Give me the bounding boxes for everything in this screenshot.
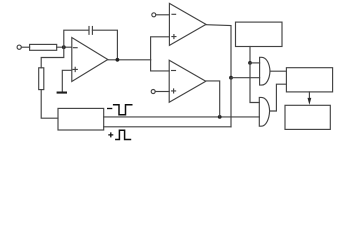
capacitor C1 right plate <box>91 27 93 35</box>
ground <box>57 92 67 94</box>
op-amp U3 <box>169 60 206 102</box>
terminal T2 <box>152 13 156 17</box>
U1 plus label <box>73 67 77 71</box>
op-amp U2 <box>169 3 206 45</box>
wire C1 to output node B <box>92 30 117 60</box>
wire T3 to U3 plus input <box>155 91 169 93</box>
box U7 display <box>285 105 330 129</box>
resistor R1 <box>30 44 57 50</box>
U2 plus label <box>172 35 176 39</box>
U2 minus label <box>172 13 176 15</box>
wire junction C up to U2 plus input <box>151 37 170 60</box>
wire node E down to gate G2 upper input <box>250 63 259 103</box>
capacitor C1 left plate <box>88 27 90 35</box>
box U5 control <box>58 108 104 130</box>
node E <box>248 61 252 65</box>
wire T2 to U2 minus input <box>156 14 170 16</box>
U3 minus label <box>172 70 176 72</box>
U1 minus label <box>74 47 78 49</box>
node A <box>62 45 66 49</box>
wire R1 to node A and U1 inverting input <box>57 46 72 48</box>
wire T1 to R1 <box>21 46 29 48</box>
wire2 U5 output to node D vertical <box>104 126 231 128</box>
wire G1 output to box U6 <box>270 70 286 72</box>
node F <box>218 115 222 119</box>
input terminal T1 <box>17 45 21 49</box>
wire junction C down to U3 minus input <box>151 60 170 71</box>
plus label wire2 <box>108 132 113 137</box>
box U6 counter <box>286 68 332 92</box>
wire1 U5 output to gate G2 lower input <box>104 116 260 118</box>
resistor R2 <box>39 68 44 90</box>
negative pulse symbol <box>113 105 133 115</box>
node D <box>229 76 233 80</box>
wire node E to gate G1 upper input <box>250 62 260 64</box>
positive pulse symbol <box>115 130 131 139</box>
node B <box>116 58 120 62</box>
wire U1 output to junction C <box>108 59 151 61</box>
minus label wire1 <box>107 108 112 110</box>
wire node D down to wire2 <box>230 78 232 127</box>
wire U1 plus input to ground <box>62 70 72 91</box>
arrow U6 to U7 <box>308 92 310 100</box>
wire U2 output down <box>206 25 231 78</box>
gate G1 <box>260 57 270 85</box>
wire U3 output down to node F <box>206 81 220 117</box>
terminal T3 <box>151 90 155 94</box>
box U4 clock <box>236 22 283 46</box>
wire node D to gate G1 lower input <box>231 77 260 79</box>
wire U4 down to node E <box>249 47 251 63</box>
wire node A up to feedback <box>64 30 89 47</box>
wire G2 output to box U6 <box>270 84 287 111</box>
gate G2 <box>259 97 269 126</box>
wire node A down to R2 <box>41 47 64 68</box>
wire R2 to box U5 input <box>41 90 58 119</box>
U3 plus label <box>172 89 176 93</box>
op-amp U1 <box>72 38 108 82</box>
